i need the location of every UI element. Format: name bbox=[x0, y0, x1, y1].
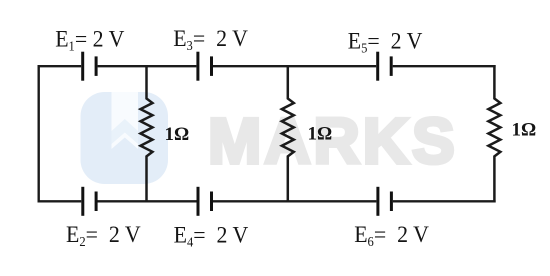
svg-text:E6= 2 V: E6= 2 V bbox=[354, 221, 429, 249]
svg-text:1Ω: 1Ω bbox=[512, 120, 537, 141]
watermark logo bbox=[81, 92, 169, 184]
svg-text:MARKS: MARKS bbox=[208, 105, 458, 177]
resistor R2 (branch 3) bbox=[282, 65, 294, 203]
wire bottom rail: left corner to E2 bbox=[38, 200, 82, 202]
wire bottom rail: E6 to right corner bbox=[393, 200, 496, 202]
wire top rail: E1 to E3 (through node of R1 branch) bbox=[98, 65, 197, 67]
label E4 bbox=[174, 222, 249, 250]
wire bottom rail: E2 to E4 (through node of R1 branch) bbox=[98, 200, 197, 202]
battery E6 bbox=[378, 187, 392, 216]
svg-text:E3= 2 V: E3= 2 V bbox=[173, 25, 248, 53]
svg-text:1Ω: 1Ω bbox=[165, 124, 190, 145]
wire top rail: E5 to right corner bbox=[393, 65, 496, 67]
battery E5 bbox=[378, 52, 392, 81]
svg-text:E1= 2 V: E1= 2 V bbox=[55, 26, 125, 54]
wire top rail: left corner to E1 bbox=[38, 65, 82, 67]
wire bottom rail: E4 to E6 (through node of R2 branch) bbox=[213, 200, 377, 202]
svg-text:E4= 2 V: E4= 2 V bbox=[174, 222, 249, 250]
resistor R3 (right edge) bbox=[488, 65, 500, 203]
battery E1 bbox=[83, 52, 96, 81]
label E3 bbox=[173, 25, 248, 53]
svg-text:E5= 2 V: E5= 2 V bbox=[348, 28, 423, 56]
battery E3 bbox=[198, 52, 212, 81]
wire left edge (vertical) bbox=[38, 65, 40, 203]
label E2 bbox=[66, 221, 141, 249]
resistor R1 (branch 2) bbox=[141, 65, 153, 203]
label E6 bbox=[354, 221, 429, 249]
battery E4 bbox=[198, 187, 212, 216]
battery E2 bbox=[83, 187, 96, 216]
label E1 bbox=[55, 26, 125, 54]
svg-text:E2= 2 V: E2= 2 V bbox=[66, 221, 141, 249]
svg-text:1Ω: 1Ω bbox=[308, 124, 333, 145]
wire top rail: E3 to E5 (through node of R2 branch) bbox=[213, 65, 376, 67]
label E5 bbox=[348, 28, 423, 56]
